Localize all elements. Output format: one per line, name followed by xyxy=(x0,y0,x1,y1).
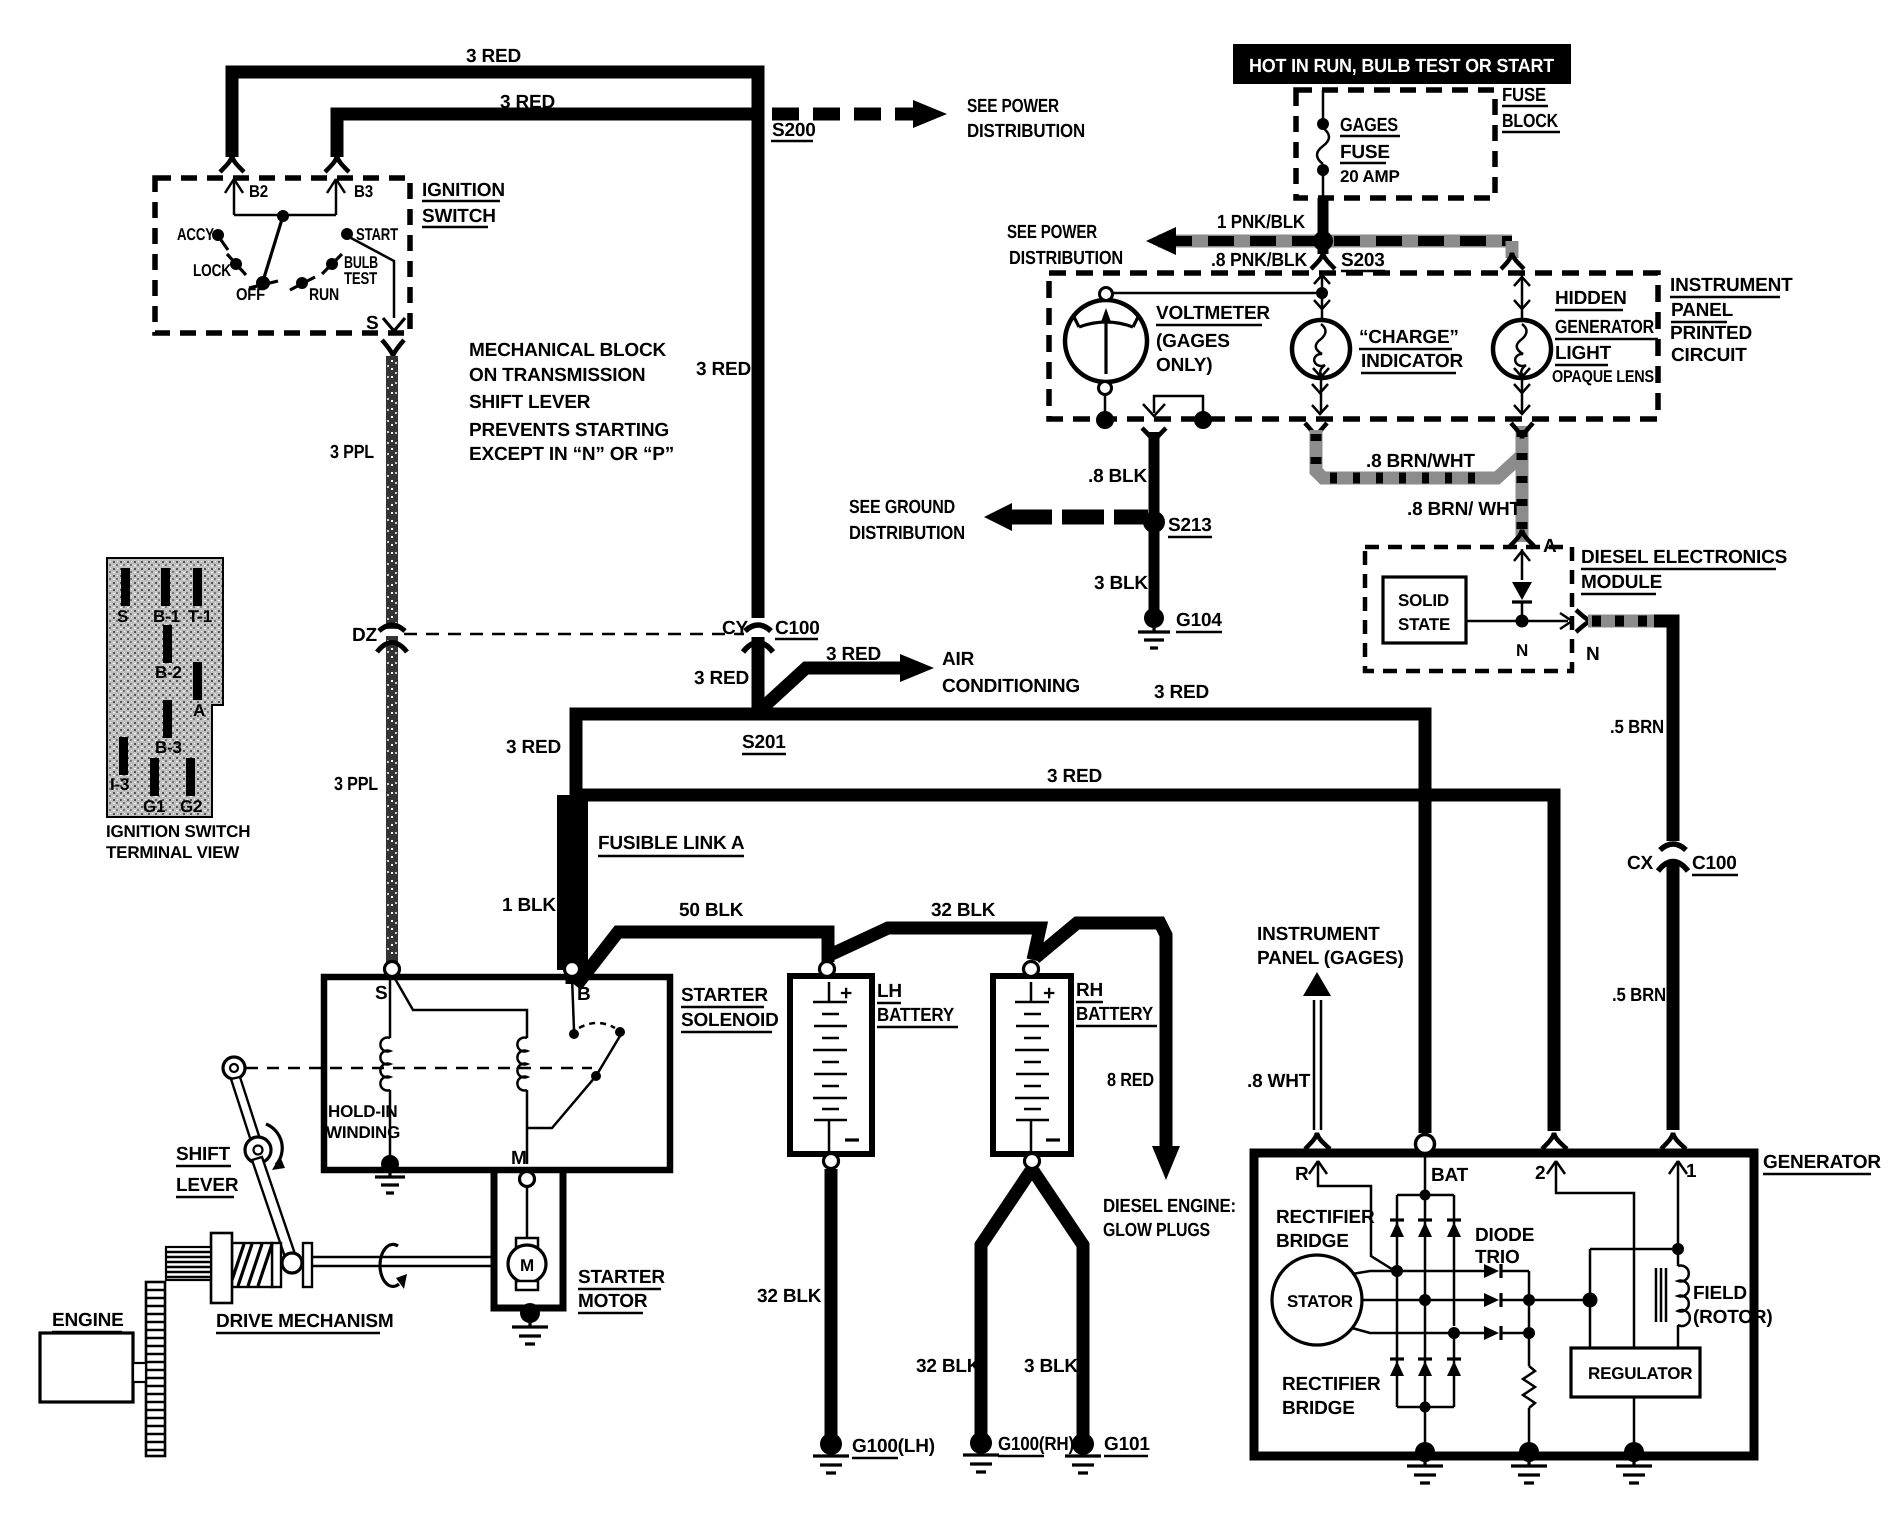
shift fork ball xyxy=(282,1253,302,1273)
svg-text:FUSIBLE LINK A: FUSIBLE LINK A xyxy=(598,833,745,854)
switch arm to M xyxy=(527,1036,620,1128)
pin B-2 xyxy=(155,625,182,682)
svg-text:DISTRIBUTION: DISTRIBUTION xyxy=(967,121,1085,142)
terminal B2 arrow xyxy=(225,179,268,215)
svg-text:LEVER: LEVER xyxy=(176,1175,239,1196)
svg-text:3 RED: 3 RED xyxy=(1047,766,1102,787)
node rotor pivot xyxy=(277,210,289,222)
svg-text:N: N xyxy=(1586,644,1600,665)
stator xyxy=(1272,1255,1362,1345)
label INSTRUMENT PANEL (GAGES) xyxy=(1257,924,1404,969)
label GAGES FUSE 20 AMP xyxy=(1340,115,1400,186)
pin G1 xyxy=(143,758,165,816)
wire .8 WHT to generator R xyxy=(1247,972,1331,1130)
pull-in winding L2 xyxy=(517,1038,527,1165)
pin B-3 xyxy=(155,700,182,757)
rotation arrow on shaft xyxy=(380,1244,407,1289)
pin T-1 xyxy=(188,568,212,626)
generator ground left xyxy=(1407,1442,1443,1483)
contact START xyxy=(341,225,399,244)
svg-text:CX: CX xyxy=(1627,853,1654,874)
terminal M of solenoid xyxy=(511,1148,535,1187)
svg-text:32 BLK: 32 BLK xyxy=(757,1286,822,1307)
terminal BAT xyxy=(1416,1135,1469,1193)
diode trio output bus xyxy=(1523,1271,1598,1339)
svg-text:S200: S200 xyxy=(772,120,816,141)
solid state box xyxy=(1383,577,1466,643)
svg-text:IGNITION SWITCH: IGNITION SWITCH xyxy=(106,822,250,841)
svg-text:RECTIFIER: RECTIFIER xyxy=(1276,1207,1375,1228)
svg-text:INSTRUMENT: INSTRUMENT xyxy=(1257,924,1380,945)
collar flange left xyxy=(272,1243,281,1287)
wire .5 BRN module to CX (mottled elbow then solid) xyxy=(1588,621,1673,841)
svg-text:HIDDEN: HIDDEN xyxy=(1555,288,1627,309)
svg-text:S201: S201 xyxy=(742,732,786,753)
label FUSE BLOCK xyxy=(1502,85,1560,132)
terminal 1 xyxy=(1661,1133,1697,1246)
svg-text:B2: B2 xyxy=(249,182,268,201)
svg-text:(ROTOR): (ROTOR) xyxy=(1693,1307,1773,1328)
fuse block dashed box xyxy=(1296,90,1495,198)
svg-text:BATTERY: BATTERY xyxy=(877,1005,954,1026)
generator ground right xyxy=(1616,1442,1652,1483)
connector S wire end xyxy=(382,340,404,356)
contact RUN xyxy=(290,277,339,304)
rectifier bridge upper bus xyxy=(1397,1190,1454,1327)
svg-text:32 BLK: 32 BLK xyxy=(916,1356,981,1377)
svg-text:SOLENOID: SOLENOID xyxy=(681,1010,779,1031)
contact OFF xyxy=(236,276,278,304)
node S203 splice xyxy=(1311,231,1385,271)
rectifier bridge upper diodes xyxy=(1390,1220,1461,1237)
label DIODE TRIO xyxy=(1475,1225,1534,1268)
svg-text:TRIO: TRIO xyxy=(1475,1247,1520,1268)
svg-text:B-3: B-3 xyxy=(155,738,182,757)
splined shaft xyxy=(166,1247,211,1280)
svg-text:HOLD-IN: HOLD-IN xyxy=(328,1102,397,1121)
label SEE POWER DISTRIBUTION (top) xyxy=(967,96,1085,142)
svg-text:3 RED: 3 RED xyxy=(826,644,881,665)
wire 3 RED second horizontal from ignition B3 xyxy=(337,92,752,157)
terminal A arrow into module xyxy=(1514,549,1530,580)
svg-text:GAGES: GAGES xyxy=(1340,115,1398,136)
hidden generator light lamp xyxy=(1493,273,1551,414)
svg-text:SEE POWER: SEE POWER xyxy=(967,96,1059,117)
svg-text:DIODE: DIODE xyxy=(1475,1225,1534,1246)
wire 3 PPL from ignition S to solenoid S xyxy=(330,356,396,963)
wire START to S terminal xyxy=(351,238,394,318)
ground hold-in winding xyxy=(375,1155,405,1193)
gear hub xyxy=(211,1233,232,1303)
node panel edge dot right xyxy=(1194,411,1212,429)
svg-text:ON TRANSMISSION: ON TRANSMISSION xyxy=(469,365,645,386)
svg-text:C100: C100 xyxy=(775,618,820,639)
collar flange right xyxy=(303,1243,312,1287)
contact LOCK xyxy=(193,254,246,280)
svg-text:B3: B3 xyxy=(354,182,373,201)
svg-text:2: 2 xyxy=(1535,1163,1545,1184)
label IGNITION SWITCH xyxy=(422,180,505,227)
wire 3 RED trunk CY to S201 xyxy=(752,637,765,716)
svg-text:S203: S203 xyxy=(1341,250,1385,271)
svg-text:.8 BRN/ WHT: .8 BRN/ WHT xyxy=(1407,499,1522,520)
generator box xyxy=(1254,1153,1754,1456)
terminal S of ignition switch xyxy=(366,313,405,334)
wire M to motor xyxy=(526,1187,529,1240)
svg-text:PANEL: PANEL xyxy=(1671,300,1734,321)
svg-text:DISTRIBUTION: DISTRIBUTION xyxy=(1009,248,1123,269)
svg-text:G2: G2 xyxy=(180,797,202,816)
svg-text:EXCEPT IN “N” OR “P”: EXCEPT IN “N” OR “P” xyxy=(469,444,674,465)
svg-text:PANEL (GAGES): PANEL (GAGES) xyxy=(1257,948,1404,969)
svg-text:8 RED: 8 RED xyxy=(1107,1070,1154,1091)
label ENGINE xyxy=(52,1310,124,1332)
hold-in winding L1 xyxy=(326,977,400,1158)
rectifier lower bus xyxy=(1397,1402,1454,1449)
wire 3 RED top horizontal from ignition B2 xyxy=(232,46,758,157)
wire 50 BLK solenoid B to LH battery xyxy=(576,900,828,986)
svg-text:1 PNK/BLK: 1 PNK/BLK xyxy=(1217,212,1305,233)
svg-text:OPAQUE LENS: OPAQUE LENS xyxy=(1552,367,1654,386)
ground starter motor xyxy=(512,1303,548,1344)
rectifier bridge lower diodes xyxy=(1390,1271,1461,1407)
fusible link A xyxy=(557,795,745,984)
svg-text:BAT: BAT xyxy=(1431,1165,1469,1186)
label AIR CONDITIONING xyxy=(942,649,1080,697)
svg-text:OFF: OFF xyxy=(236,285,265,304)
label RH BATTERY xyxy=(1076,980,1157,1026)
svg-text:3 RED: 3 RED xyxy=(696,359,751,380)
terminal B3 arrow xyxy=(327,179,373,215)
stator phase leads xyxy=(1352,1271,1397,1333)
svg-text:RECTIFIER: RECTIFIER xyxy=(1282,1374,1381,1395)
svg-text:START: START xyxy=(356,225,399,244)
svg-text:1: 1 xyxy=(1686,1161,1697,1182)
header box HOT IN RUN, BULB TEST OR START xyxy=(1233,44,1571,84)
svg-text:ONLY): ONLY) xyxy=(1156,355,1212,376)
drive worm gear xyxy=(232,1243,272,1287)
svg-text:CONDITIONING: CONDITIONING xyxy=(942,676,1080,697)
terminal 2 xyxy=(1535,1133,1634,1348)
wire staple to .8 BLK xyxy=(1143,396,1203,417)
svg-text:BATTERY: BATTERY xyxy=(1076,1004,1153,1025)
starter motor housing xyxy=(494,1170,563,1308)
svg-text:LH: LH xyxy=(877,981,902,1002)
wire dashed DZ to CY xyxy=(404,633,744,636)
svg-text:G1: G1 xyxy=(143,797,165,816)
wire 3 RED second run to generator terminal 2 xyxy=(570,766,1554,1131)
phase row wires to diode trio xyxy=(1391,1265,1484,1339)
wire 32 BLK LH battery to G100(LH) xyxy=(757,1169,831,1438)
field rotor coil xyxy=(1656,1249,1690,1348)
svg-text:C100: C100 xyxy=(1692,853,1737,874)
svg-text:S: S xyxy=(366,313,378,334)
voltmeter M1 xyxy=(1065,288,1147,395)
terminal S of solenoid xyxy=(375,962,400,1005)
svg-text:TEST: TEST xyxy=(344,269,378,288)
svg-text:BLOCK: BLOCK xyxy=(1502,111,1558,132)
svg-text:CY: CY xyxy=(722,618,749,639)
dashed actuation line through solenoid xyxy=(246,1067,592,1070)
svg-text:LIGHT: LIGHT xyxy=(1555,343,1612,364)
instrument panel printed circuit dashed box xyxy=(1049,273,1658,419)
terminal R xyxy=(1295,1161,1395,1271)
battery LH xyxy=(790,962,872,1169)
svg-text:I-3: I-3 xyxy=(110,775,129,794)
label GENERATOR xyxy=(1763,1152,1881,1174)
node S200 splice xyxy=(771,120,816,141)
svg-text:DRIVE MECHANISM: DRIVE MECHANISM xyxy=(216,1311,394,1332)
svg-text:CIRCUIT: CIRCUIT xyxy=(1671,345,1747,366)
svg-text:DZ: DZ xyxy=(352,625,378,646)
wire .5 BRN CX to generator terminal 1 xyxy=(1612,861,1673,1130)
wire 3 BLK S213 to G104 xyxy=(1094,522,1154,612)
svg-text:BRIDGE: BRIDGE xyxy=(1282,1398,1355,1419)
svg-text:FUSE: FUSE xyxy=(1340,142,1390,163)
svg-text:.8 PNK/BLK: .8 PNK/BLK xyxy=(1211,250,1307,271)
wire S200 dashed to power distribution xyxy=(772,100,947,128)
svg-text:STARTER: STARTER xyxy=(578,1267,665,1288)
wire see power distribution PNK/BLK (mottled) xyxy=(1146,227,1524,269)
svg-text:B: B xyxy=(577,984,591,1005)
node N junction xyxy=(1466,613,1572,660)
shift lever lower arm xyxy=(252,1157,295,1257)
svg-text:DISTRIBUTION: DISTRIBUTION xyxy=(849,523,965,544)
svg-text:MECHANICAL BLOCK: MECHANICAL BLOCK xyxy=(469,340,666,361)
svg-text:ENGINE: ENGINE xyxy=(52,1310,124,1331)
connector arrow at panel top (S203 feed) xyxy=(1314,273,1330,290)
fuse GAGES FUSE 20 AMP xyxy=(1317,90,1329,198)
drive shaft to motor xyxy=(312,1257,494,1266)
terminal B of solenoid xyxy=(565,962,591,1006)
label MECHANICAL BLOCK note xyxy=(469,340,674,465)
rotation arrow at mid pivot xyxy=(266,1124,282,1165)
battery RH xyxy=(993,962,1071,1169)
svg-text:.8 BRN/WHT: .8 BRN/WHT xyxy=(1366,451,1475,472)
node panel edge dot left xyxy=(1096,411,1114,429)
ring gear xyxy=(146,1282,165,1456)
svg-text:3 BLK: 3 BLK xyxy=(1024,1356,1078,1377)
ignition switch terminal view connector body xyxy=(108,559,222,816)
svg-text:SHIFT: SHIFT xyxy=(176,1144,230,1165)
svg-text:3 PPL: 3 PPL xyxy=(334,774,378,795)
connector CY C100 xyxy=(722,618,820,652)
node S201 xyxy=(742,732,786,754)
ground G101 xyxy=(1065,1433,1150,1473)
svg-text:GENERATOR: GENERATOR xyxy=(1555,317,1654,338)
shift lever upper arm xyxy=(231,1077,260,1141)
field feed line xyxy=(1590,1243,1684,1348)
regulator ground lead xyxy=(1633,1397,1636,1448)
wire 3 RED branch to air conditioning xyxy=(758,644,934,712)
svg-text:32 BLK: 32 BLK xyxy=(931,900,996,921)
battery LH plates xyxy=(813,1002,847,1120)
wire S to pull-in winding xyxy=(394,977,527,1038)
svg-text:S: S xyxy=(117,607,128,626)
node junction charge feed xyxy=(1316,287,1328,299)
generator ground middle xyxy=(1511,1442,1547,1483)
svg-text:.8 BLK: .8 BLK xyxy=(1088,466,1147,487)
svg-text:S213: S213 xyxy=(1168,515,1212,536)
switch rotor arm to OFF xyxy=(263,216,283,281)
ground G100(RH) xyxy=(963,1432,1074,1472)
svg-text:SWITCH: SWITCH xyxy=(422,206,496,227)
svg-text:3 PPL: 3 PPL xyxy=(330,442,374,463)
connector R at generator xyxy=(1305,1133,1330,1149)
wire SEE GROUND DISTRIBUTION dashed xyxy=(984,503,1148,531)
svg-text:SOLID: SOLID xyxy=(1398,591,1449,610)
svg-text:FIELD: FIELD xyxy=(1693,1283,1747,1304)
svg-text:GENERATOR: GENERATOR xyxy=(1763,1152,1881,1173)
svg-text:N: N xyxy=(1516,641,1528,660)
svg-text:SHIFT LEVER: SHIFT LEVER xyxy=(469,392,591,413)
svg-text:DIESEL ELECTRONICS: DIESEL ELECTRONICS xyxy=(1581,547,1787,568)
ground G104 xyxy=(1138,608,1222,648)
svg-text:ACCY: ACCY xyxy=(177,225,215,244)
svg-text:WINDING: WINDING xyxy=(326,1123,400,1142)
svg-text:TERMINAL VIEW: TERMINAL VIEW xyxy=(106,843,240,862)
connector .8 BLK wire end below panel xyxy=(1142,428,1166,443)
charge indicator lamp xyxy=(1292,293,1350,414)
label STARTER MOTOR xyxy=(578,1267,665,1313)
starter motor M xyxy=(508,1238,546,1290)
wire 3 RED S201 horizontal run to BAT xyxy=(576,682,1425,1133)
connector DZ xyxy=(352,625,407,652)
svg-text:PREVENTS STARTING: PREVENTS STARTING xyxy=(469,420,669,441)
contact ACCY xyxy=(177,225,228,250)
svg-text:BRIDGE: BRIDGE xyxy=(1276,1231,1349,1252)
label IGNITION SWITCH TERMINAL VIEW xyxy=(106,822,250,862)
label INSTRUMENT PANEL PRINTED CIRCUIT xyxy=(1670,275,1793,366)
svg-text:A: A xyxy=(193,701,205,720)
svg-text:GLOW PLUGS: GLOW PLUGS xyxy=(1103,1220,1210,1241)
battery RH plates xyxy=(1015,1002,1049,1120)
svg-text:R: R xyxy=(1295,1164,1309,1185)
wire .8 BLK panel to S213 xyxy=(1088,432,1154,514)
node S213 splice xyxy=(1143,511,1212,537)
svg-text:LOCK: LOCK xyxy=(193,261,232,280)
svg-text:20 AMP: 20 AMP xyxy=(1340,167,1400,186)
resistor R xyxy=(1523,1333,1535,1448)
svg-text:MODULE: MODULE xyxy=(1581,572,1662,593)
svg-text:50 BLK: 50 BLK xyxy=(679,900,744,921)
connector CX C100 xyxy=(1627,844,1738,875)
pin I-3 xyxy=(110,737,129,794)
svg-text:.5 BRN: .5 BRN xyxy=(1610,717,1664,738)
svg-text:REGULATOR: REGULATOR xyxy=(1588,1364,1692,1383)
svg-text:STATOR: STATOR xyxy=(1287,1292,1353,1311)
pin G2 xyxy=(180,758,202,816)
pin S xyxy=(117,568,130,626)
label VOLTMETER (GAGES ONLY) xyxy=(1156,303,1270,376)
svg-text:3 RED: 3 RED xyxy=(1154,682,1209,703)
svg-text:B-2: B-2 xyxy=(155,663,182,682)
connector B3 wire end xyxy=(325,156,349,172)
svg-text:.8 WHT: .8 WHT xyxy=(1247,1071,1311,1092)
label STARTER SOLENOID xyxy=(681,985,779,1032)
wire Y split RH battery to grounds xyxy=(916,1169,1083,1437)
label DIESEL ELECTRONICS MODULE xyxy=(1581,547,1787,594)
shift lever pivot top xyxy=(223,1057,245,1079)
label CHARGE INDICATOR xyxy=(1359,327,1463,373)
starter solenoid box xyxy=(324,977,670,1170)
label HIDDEN GENERATOR LIGHT OPAQUE LENS xyxy=(1552,288,1658,386)
svg-text:3 RED: 3 RED xyxy=(506,737,561,758)
pin B-1 xyxy=(153,568,180,626)
shift lever mid pivot xyxy=(245,1137,271,1163)
svg-text:SEE POWER: SEE POWER xyxy=(1007,222,1097,243)
wire 8 RED to glow plugs xyxy=(1035,923,1180,1180)
svg-text:INDICATOR: INDICATOR xyxy=(1361,351,1463,372)
label SEE POWER DISTRIBUTION (second) xyxy=(1007,222,1123,269)
svg-text:HOT IN RUN, BULB TEST OR STAR: HOT IN RUN, BULB TEST OR START xyxy=(1249,56,1555,77)
wire voltmeter bottom to panel edge xyxy=(1104,394,1107,416)
regulator box xyxy=(1571,1348,1700,1397)
svg-text:3 RED: 3 RED xyxy=(500,92,555,113)
svg-text:G100(RH): G100(RH) xyxy=(998,1434,1074,1455)
engine block xyxy=(40,1333,146,1402)
svg-text:IGNITION: IGNITION xyxy=(422,180,505,201)
label RECTIFIER BRIDGE (upper) xyxy=(1276,1207,1375,1252)
svg-text:G104: G104 xyxy=(1176,610,1222,631)
diesel electronics module dashed box xyxy=(1365,547,1572,671)
svg-text:3 BLK: 3 BLK xyxy=(1094,573,1148,594)
contact BULB TEST xyxy=(322,253,378,288)
label DRIVE MECHANISM xyxy=(216,1311,394,1333)
svg-text:M: M xyxy=(511,1148,527,1169)
svg-text:M: M xyxy=(520,1256,534,1275)
label SHIFT LEVER xyxy=(176,1144,239,1197)
contact from B xyxy=(569,977,625,1039)
label FIELD (ROTOR) xyxy=(1693,1283,1773,1328)
svg-text:1 BLK: 1 BLK xyxy=(502,895,556,916)
svg-text:B-1: B-1 xyxy=(153,607,180,626)
ground G100(LH) xyxy=(813,1433,935,1473)
svg-text:G101: G101 xyxy=(1104,1434,1150,1455)
label SEE GROUND DISTRIBUTION xyxy=(849,497,965,544)
ignition switch dashed box xyxy=(155,178,410,333)
svg-text:INSTRUMENT: INSTRUMENT xyxy=(1670,275,1793,296)
wire B2-B3 bus inside switch xyxy=(234,214,336,217)
svg-text:3 RED: 3 RED xyxy=(466,46,521,67)
svg-text:T-1: T-1 xyxy=(188,607,212,626)
svg-text:G100(LH): G100(LH) xyxy=(852,1436,935,1457)
svg-text:FUSE: FUSE xyxy=(1502,85,1546,106)
svg-text:.5 BRN: .5 BRN xyxy=(1612,985,1666,1006)
svg-text:“CHARGE”: “CHARGE” xyxy=(1359,327,1459,348)
svg-text:STARTER: STARTER xyxy=(681,985,768,1006)
svg-text:SEE GROUND: SEE GROUND xyxy=(849,497,955,518)
wire 1 PNK/BLK fuse to S203 xyxy=(1217,198,1323,236)
svg-text:S: S xyxy=(375,983,387,1004)
wire 3 RED vertical trunk to CY xyxy=(752,108,765,618)
svg-text:AIR: AIR xyxy=(942,649,975,670)
label DIESEL ENGINE: GLOW PLUGS xyxy=(1103,1196,1236,1241)
svg-text:(GAGES: (GAGES xyxy=(1156,331,1230,352)
svg-text:DIESEL ENGINE:: DIESEL ENGINE: xyxy=(1103,1196,1236,1217)
svg-text:MOTOR: MOTOR xyxy=(578,1291,648,1312)
wire voltmeter top to charge node xyxy=(1112,292,1316,295)
diode CR1 xyxy=(1512,582,1532,621)
connector N wire end xyxy=(1576,610,1591,632)
wire .8 BRN/WHT charge lamp to module (mottled) xyxy=(1305,423,1534,546)
connector B2 wire end xyxy=(220,156,244,172)
svg-text:3 RED: 3 RED xyxy=(694,668,749,689)
svg-text:RUN: RUN xyxy=(309,285,339,304)
label RECTIFIER BRIDGE (lower) xyxy=(1282,1374,1381,1419)
svg-text:PRINTED: PRINTED xyxy=(1670,323,1752,344)
label LH BATTERY xyxy=(877,981,958,1027)
